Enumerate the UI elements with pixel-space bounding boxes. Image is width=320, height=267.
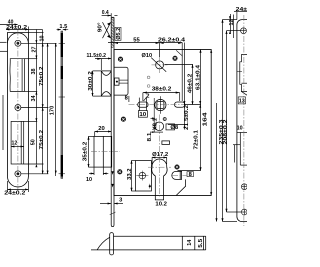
svg-text:24±0.2: 24±0.2 — [6, 25, 27, 31]
svg-text:Ø10: Ø10 — [142, 53, 153, 59]
svg-text:55: 55 — [133, 37, 140, 43]
svg-text:34: 34 — [31, 95, 37, 101]
svg-text:13: 13 — [239, 99, 245, 105]
svg-text:72±0.1: 72±0.1 — [193, 130, 199, 150]
svg-text:26.2±0.4: 26.2±0.4 — [158, 37, 185, 43]
svg-text:Ø17.2: Ø17.2 — [152, 152, 168, 158]
svg-text:24±0.2: 24±0.2 — [4, 191, 25, 197]
svg-text:14: 14 — [187, 240, 193, 246]
svg-text:208±0.2: 208±0.2 — [223, 119, 229, 144]
svg-text:21.5±0.2: 21.5±0.2 — [184, 105, 190, 130]
svg-text:X8.1: X8.1 — [153, 118, 159, 130]
svg-text:20: 20 — [98, 126, 105, 132]
svg-text:8: 8 — [125, 96, 128, 102]
svg-text:38±0.2: 38±0.2 — [152, 87, 172, 93]
svg-text:0.4: 0.4 — [102, 10, 109, 16]
svg-text:33.2: 33.2 — [127, 168, 133, 180]
svg-text:27: 27 — [31, 46, 37, 52]
svg-text:50: 50 — [30, 139, 36, 145]
svg-text:8.1: 8.1 — [147, 132, 153, 141]
svg-text:Ø5.2: Ø5.2 — [116, 28, 122, 40]
svg-text:164: 164 — [202, 112, 208, 126]
svg-text:90°: 90° — [98, 23, 104, 33]
svg-text:35±0.2: 35±0.2 — [82, 142, 88, 162]
svg-text:12: 12 — [229, 19, 235, 25]
svg-text:1.5: 1.5 — [59, 24, 67, 30]
svg-text:3: 3 — [119, 197, 122, 203]
svg-text:11.5±0.2: 11.5±0.2 — [86, 53, 106, 59]
svg-text:8: 8 — [189, 172, 192, 178]
svg-text:10: 10 — [86, 177, 92, 183]
svg-text:10: 10 — [39, 35, 45, 41]
svg-text:24±0: 24±0 — [236, 7, 247, 13]
svg-text:75±0.2: 75±0.2 — [39, 130, 45, 150]
svg-text:75±0.2: 75±0.2 — [39, 66, 45, 86]
svg-text:10: 10 — [237, 126, 243, 132]
svg-text:2: 2 — [146, 94, 149, 100]
svg-text:10: 10 — [139, 112, 146, 118]
svg-text:Ø8: Ø8 — [170, 125, 178, 131]
svg-text:10.2: 10.2 — [155, 201, 167, 207]
svg-text:170: 170 — [49, 106, 55, 116]
svg-text:46±0.2: 46±0.2 — [187, 74, 193, 94]
svg-text:63.1±0.4: 63.1±0.4 — [196, 65, 202, 90]
svg-text:5.5: 5.5 — [198, 239, 204, 248]
svg-text:12: 12 — [12, 141, 18, 147]
svg-text:38: 38 — [31, 68, 37, 74]
svg-text:30±0.2: 30±0.2 — [88, 71, 94, 91]
